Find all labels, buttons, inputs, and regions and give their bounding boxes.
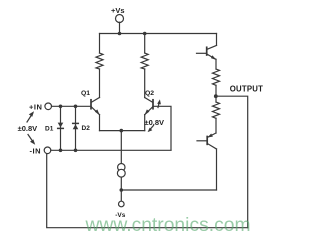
svg-text:www.cntronics.com: www.cntronics.com xyxy=(85,215,251,236)
svg-text:+Vs: +Vs xyxy=(111,6,125,15)
-IN terminal xyxy=(44,147,171,154)
svg-text:OUTPUT: OUTPUT xyxy=(230,85,263,94)
resistor R1 xyxy=(96,34,103,98)
-Vs terminal xyxy=(119,190,125,207)
node D2 top xyxy=(74,105,78,109)
+Vs terminal xyxy=(116,15,124,36)
resistor R4 xyxy=(213,96,220,133)
svg-text:Q1: Q1 xyxy=(81,90,90,97)
diode D1 xyxy=(58,106,64,150)
node emitter junction xyxy=(120,129,124,133)
wire feedback bottom rail xyxy=(47,154,248,228)
±0.8V label left xyxy=(18,124,38,133)
transistor Q3 xyxy=(197,45,217,69)
node D1 top xyxy=(59,105,63,109)
left annotation arrow up xyxy=(27,111,34,122)
wire bottom mid rail xyxy=(121,189,216,191)
transistor Q1 xyxy=(91,98,100,131)
node R2 top junction xyxy=(143,32,147,36)
node -Vs junction xyxy=(120,188,124,192)
wire common emitter rail xyxy=(100,130,145,132)
current source I1 xyxy=(117,131,125,190)
right annotation arrow up xyxy=(157,99,161,107)
svg-text:D1: D1 xyxy=(45,126,54,133)
resistor R2 xyxy=(141,34,148,98)
svg-text:±0.8V: ±0.8V xyxy=(18,124,38,133)
+IN terminal xyxy=(45,103,91,110)
node D2 bottom xyxy=(74,149,78,153)
node D1 bottom xyxy=(59,149,63,153)
wire OUTPUT to feedback xyxy=(216,96,248,228)
svg-text:D2: D2 xyxy=(82,125,91,132)
wire top rail xyxy=(100,33,217,35)
diode D2 xyxy=(73,106,79,150)
svg-text:+IN: +IN xyxy=(29,102,42,111)
resistor R3 xyxy=(213,69,220,96)
wire Q2 base to -IN feedback xyxy=(154,106,171,150)
wire top rail right drop xyxy=(216,34,218,46)
svg-text:Q2: Q2 xyxy=(145,90,154,97)
transistor Q4 xyxy=(197,133,217,190)
right annotation arrow down xyxy=(148,126,154,133)
svg-text:-IN: -IN xyxy=(30,147,42,156)
left annotation arrow down xyxy=(28,135,35,145)
±0.8V label right xyxy=(145,118,165,127)
node OUTPUT xyxy=(214,94,218,98)
transistor Q2 xyxy=(144,98,153,131)
